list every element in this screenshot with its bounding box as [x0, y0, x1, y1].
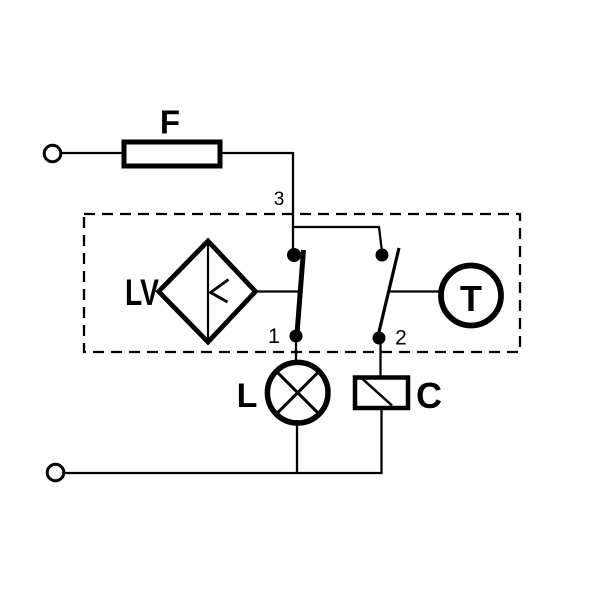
svg-text:3: 3 [274, 189, 285, 210]
thermostat T circle [441, 266, 501, 326]
wire branch to switch 2 [293, 227, 382, 252]
wire fuse to corner [222, 152, 293, 154]
switch 1 blade [297, 250, 304, 334]
svg-text:T: T [460, 278, 482, 319]
svg-text:2: 2 [395, 327, 407, 350]
wire switch 1 to lamp [295, 340, 297, 362]
switch 2 top contact dot [376, 249, 389, 262]
wire diamond to switch 1 [256, 290, 301, 292]
terminal bottom-left [47, 464, 64, 481]
relay LV diamond [159, 241, 256, 342]
lamp L circle [267, 362, 328, 423]
wire lamp to bottom rail [296, 420, 298, 474]
switch 2 bottom contact dot [373, 332, 386, 345]
svg-text:LV: LV [125, 272, 159, 313]
wire C to bottom rail [380, 410, 382, 474]
relay LV less-than symbol [211, 280, 229, 303]
svg-text:C: C [416, 375, 442, 416]
wire switch 2 to compressor C [379, 342, 381, 377]
svg-text:F: F [160, 104, 180, 141]
dashed enclosure box [84, 214, 520, 352]
wire down to switch 1 [292, 152, 294, 255]
compressor relay C box [355, 378, 408, 409]
wire terminal to fuse [61, 152, 125, 154]
svg-text:1: 1 [268, 324, 280, 348]
lamp X diagonal 1 [277, 372, 318, 413]
switch 2 blade [378, 248, 399, 336]
relay LV inner vertical line [207, 243, 209, 340]
svg-text:L: L [237, 377, 258, 415]
compressor C diagonal [362, 379, 392, 406]
fuse F [124, 142, 220, 166]
switch 1 bottom contact dot [290, 330, 303, 343]
switch 1 top contact dot [287, 248, 301, 262]
bottom rail wire [64, 472, 383, 474]
terminal top-left [44, 145, 61, 162]
lamp X diagonal 2 [277, 372, 318, 413]
wire switch 2 to thermostat T [389, 290, 440, 292]
